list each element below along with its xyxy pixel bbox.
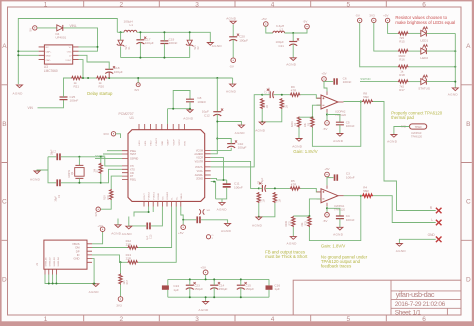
resistor R4 (362, 194, 373, 197)
junction R1 top (100, 156, 102, 158)
svg-text:C12: C12 (204, 113, 210, 117)
wire XTO up from rail (101, 169, 122, 183)
wire VCCR to C11 node (211, 158, 224, 180)
svg-text:100nF: 100nF (197, 100, 206, 104)
svg-text:150µF: 150µF (219, 287, 228, 291)
svg-text:100nF: 100nF (343, 80, 352, 84)
junction shield rail (48, 283, 50, 285)
resistor R9 (290, 93, 301, 96)
svg-text:ZGND: ZGND (196, 178, 203, 181)
supply 3V3 LED rail (372, 18, 376, 22)
capacitor C7 (269, 91, 271, 98)
svg-text:AGND: AGND (183, 116, 194, 120)
capacitor C10 (227, 143, 235, 145)
svg-text:U2OPA1: U2OPA1 (334, 204, 345, 208)
wire C17 verticals (139, 32, 141, 40)
wire shunt A bottoms (262, 109, 282, 122)
LED LED2 (421, 48, 427, 54)
wire DM to R12 (92, 247, 127, 249)
junction feedback B (360, 195, 362, 197)
svg-text:VCCP: VCCP (173, 139, 175, 146)
svg-text:1: 1 (44, 316, 48, 323)
junction GND rail (93, 283, 95, 285)
wire shunt B bottoms (259, 203, 275, 217)
svg-text:1: 1 (44, 1, 48, 8)
resistor R17 pullup (119, 274, 122, 285)
U3 left pin stubs (39, 47, 45, 60)
svg-text:AGND: AGND (292, 144, 303, 148)
junction rail pin2 (17, 50, 19, 52)
op-amp U2A output stub (338, 101, 344, 103)
wire C1 to crystal top (61, 156, 105, 158)
svg-text:2.2µF: 2.2µF (268, 87, 271, 94)
svg-text:AGND: AGND (333, 233, 344, 237)
wire cap bank top rail (168, 278, 269, 280)
svg-text:22R: 22R (107, 195, 110, 200)
svg-text:FUNC3: FUNC3 (156, 137, 158, 145)
resistor R22 gain B (292, 216, 295, 227)
wire -5V to C5 (327, 115, 340, 123)
wire STATUS to rail (426, 81, 455, 83)
wire XTI down from rail (105, 157, 122, 166)
supply -5V opamp B (325, 213, 330, 218)
wire C22 to AGND (201, 220, 228, 223)
crystal Q1 (75, 165, 83, 178)
svg-text:GND: GND (428, 233, 436, 237)
wire thermal pad to AGND (394, 127, 410, 135)
U1 left lower pin stubs (122, 166, 128, 180)
svg-text:3V3: 3V3 (116, 304, 122, 308)
svg-text:+5V: +5V (200, 265, 207, 269)
supply +5V opamp B (325, 172, 330, 177)
svg-text:AGND: AGND (387, 140, 398, 144)
op-amp U2B power stubs (326, 185, 328, 206)
svg-text:R17: R17 (126, 279, 129, 284)
resistor R18 (398, 65, 409, 68)
wire 3V3 to R16 (374, 23, 398, 51)
J1 right pin stubs (87, 244, 92, 262)
wire DP to R13 (92, 255, 127, 262)
resistor R3 feedback A (311, 117, 314, 128)
wire LED cathode rail down (454, 33, 456, 87)
svg-text:VCCL: VCCL (197, 170, 204, 173)
wire U3 pin6 to rail (79, 60, 84, 78)
wire C15 stubs (240, 279, 242, 285)
svg-text:C13: C13 (149, 234, 152, 239)
wire shield pin down (55, 275, 57, 284)
svg-text:TEST: TEST (130, 153, 137, 156)
ground AGND delay rail end (230, 84, 236, 87)
svg-text:A: A (466, 43, 471, 50)
wire C13 right to U1 (151, 207, 162, 226)
wire TEST from U1 (103, 153, 122, 155)
svg-text:LED1: LED1 (420, 38, 428, 42)
title block box (293, 280, 461, 315)
junction shield rail (52, 283, 54, 285)
frame row ticks left (2, 85, 8, 241)
svg-text:2: 2 (119, 316, 123, 323)
junction C23 top (189, 278, 191, 280)
svg-text:A: A (2, 43, 7, 50)
svg-text:Sheet: 1/1: Sheet: 1/1 (395, 309, 421, 316)
svg-text:NC: NC (46, 47, 50, 49)
svg-text:2016-7-29 21:02:06: 2016-7-29 21:02:06 (395, 301, 446, 308)
svg-text:5: 5 (346, 316, 350, 323)
svg-text:+5V: +5V (324, 167, 329, 171)
wire C8 net horizontal (168, 108, 191, 110)
svg-text:AGND: AGND (286, 63, 297, 67)
svg-text:DP: DP (76, 249, 80, 253)
wire VIN net (38, 100, 64, 108)
svg-text:C: C (466, 199, 471, 206)
wire C7 left stub (262, 94, 270, 96)
op-amp U2B triangle (321, 189, 338, 203)
svg-text:Delay startup: Delay startup (87, 91, 113, 96)
svg-text:TPAD: TPAD (415, 125, 422, 129)
resistor R5 (290, 187, 301, 190)
junction C15 bottom (240, 296, 242, 298)
wire AGND to C20 (232, 25, 234, 37)
wire VINL net D4 to U3 pin8 (63, 28, 97, 51)
wire R1 top stub (100, 157, 102, 163)
wire crystal AGND tap (37, 169, 48, 172)
svg-text:AGND: AGND (333, 139, 344, 143)
resistor R17 status (398, 80, 409, 83)
junction VBUS node (182, 219, 184, 221)
svg-text:AGNDR: AGNDR (194, 153, 203, 156)
thermal pad U2 stadium (410, 124, 427, 129)
svg-text:LMC7660: LMC7660 (44, 69, 58, 73)
junction C15 top (240, 278, 242, 280)
supply +5V left of L2 (264, 22, 269, 27)
junction D2 top (189, 31, 191, 33)
wire feedback A (312, 102, 360, 147)
svg-text:FUNC2: FUNC2 (149, 191, 151, 199)
resistor R19 (110, 189, 113, 200)
svg-text:yifan-usb-dac: yifan-usb-dac (396, 290, 435, 299)
svg-text:6: 6 (422, 1, 426, 8)
svg-text:GND: GND (46, 56, 51, 58)
wire FUNC1 stub (152, 207, 154, 213)
wire C12 rail upper (216, 78, 218, 112)
svg-text:100nF: 100nF (346, 175, 355, 179)
svg-text:5V: 5V (29, 28, 33, 32)
svg-text:R16: R16 (399, 57, 405, 61)
wire L1 left (117, 31, 124, 33)
junction C11 top rail (223, 179, 225, 181)
LED LED1 (421, 30, 427, 36)
wire +5V stub below VBUS (182, 220, 184, 225)
wire C18 up (108, 72, 110, 78)
wire input rail top-left loop (18, 19, 117, 85)
wire delay rail right (107, 77, 233, 79)
svg-text:AGND: AGND (448, 93, 459, 97)
junction R17 tap (120, 261, 122, 263)
svg-text:U2OPA3: U2OPA3 (411, 131, 422, 135)
capacitor C24 (162, 285, 169, 289)
svg-text:VCCX: VCCX (179, 139, 181, 146)
svg-text:100nF: 100nF (169, 41, 178, 45)
supply 3V3 tap on delay rail (136, 83, 140, 87)
supply 3V3 left of U1 (111, 132, 115, 136)
wire rail tap to U3 pin2 (18, 50, 38, 52)
op-amp U2B input stubs (317, 192, 322, 199)
wire left rail crystal (48, 157, 56, 183)
wire U1 VCOM to C10 (211, 148, 232, 151)
svg-text:4: 4 (271, 1, 275, 8)
capacitor C4 (336, 216, 344, 219)
svg-text:Gain: 1.8V/V: Gain: 1.8V/V (293, 149, 317, 154)
svg-text:3: 3 (195, 316, 199, 323)
svg-text:AGND: AGND (235, 131, 246, 135)
svg-text:GND: GND (74, 257, 80, 261)
svg-text:-5V: -5V (303, 20, 308, 24)
wire LED2 to cathode rail (426, 50, 455, 52)
U1 right pin stubs (205, 150, 211, 178)
svg-text:R22: R22 (288, 220, 291, 225)
svg-text:DOUT: DOUT (144, 193, 146, 200)
junction C10 mid tap (216, 138, 218, 140)
IC U1 PCM2707 body (128, 130, 205, 202)
junction C23 bottom (189, 296, 191, 298)
svg-text:5: 5 (346, 1, 350, 8)
ground AGND output jack (396, 244, 402, 247)
svg-text:1M: 1M (266, 105, 269, 108)
wire C11 bottom rail (216, 188, 227, 199)
inductor L2 (273, 31, 285, 33)
zener diode D2 (187, 40, 192, 45)
svg-text:VOUT: VOUT (65, 60, 72, 62)
wire R18 to rail (409, 66, 456, 68)
svg-text:SSPND: SSPND (360, 77, 371, 81)
wire VBUS to +5V (92, 232, 103, 244)
wire R19 bottom to 3V3 (100, 200, 111, 209)
capacitor C18 (105, 68, 113, 70)
junction C17 top (139, 31, 141, 33)
svg-text:L2: L2 (280, 28, 284, 32)
svg-text:100nF: 100nF (234, 185, 243, 189)
svg-text:FUNC1: FUNC1 (153, 191, 155, 199)
J1 shield pin stubs (45, 269, 56, 274)
wire C4 to AGND (339, 219, 341, 227)
capacitor C14 (210, 284, 218, 286)
wire D1 vertical (120, 32, 122, 40)
ground AGND right of C22 (225, 223, 231, 226)
svg-text:+5V: +5V (261, 17, 266, 21)
wire VOUTR to filter B (211, 161, 259, 188)
junction FUNC nest (148, 211, 150, 213)
resistor R11 shunt (280, 98, 283, 109)
wire U1 VBUS down (181, 207, 183, 220)
wire C9 left stub (259, 187, 263, 189)
svg-text:AGND: AGND (111, 231, 122, 235)
svg-text:TPA6120: TPA6120 (335, 113, 347, 117)
ground AGND below C11 (219, 203, 225, 206)
wire LED1 to cathode rail (426, 32, 455, 34)
capacitor C17 (136, 39, 144, 41)
svg-text:DGND: DGND (158, 193, 160, 200)
wire R1 bottom to XTO (100, 174, 102, 183)
wire FUNC pins nest (134, 207, 149, 217)
junction shunt B (258, 216, 260, 218)
svg-text:C: C (2, 199, 7, 206)
junction LED2 rail (454, 50, 456, 52)
junction C17 bottom (139, 57, 141, 59)
capacitor C12 (213, 111, 221, 113)
svg-text:AGND: AGND (252, 224, 263, 228)
svg-text:6: 6 (422, 316, 426, 323)
junction VINL (97, 46, 99, 48)
svg-text:+5V: +5V (97, 224, 104, 228)
wire AGNDL net (211, 182, 216, 199)
wire C13 net (129, 217, 146, 226)
wire C9 right to R5 (266, 187, 290, 189)
op-amp U2A plus minus (322, 97, 324, 105)
ground AGND R22 (290, 237, 296, 240)
wire -5V to R18 (360, 23, 398, 67)
svg-text:150µF: 150µF (245, 287, 254, 291)
junction feedback A (360, 101, 362, 103)
capacitor C13 (146, 223, 148, 230)
ground AGND near USB (115, 225, 121, 228)
wire VOUTL to filter A (211, 95, 263, 167)
wire crystal bottom stub (78, 178, 80, 182)
svg-text:TPA6120: TPA6120 (411, 135, 423, 139)
wire R17 to STATUS LED (409, 81, 421, 83)
junction C18 tap (108, 77, 110, 79)
resistor R23 feedback B (308, 216, 311, 227)
capacitor C20 (229, 36, 237, 38)
wire R15 to LED1 (409, 32, 421, 34)
svg-text:AGND: AGND (255, 129, 266, 133)
wire +5V to rail (205, 275, 207, 280)
resistor R6 shunt (257, 192, 260, 203)
wire +5V to R15 (388, 23, 398, 34)
op-amp U2A input stubs (317, 98, 322, 105)
svg-text:AGND: AGND (226, 90, 237, 94)
junction crystal bottom (78, 182, 80, 184)
junction shunt A (261, 121, 263, 123)
svg-text:100nF: 100nF (70, 98, 79, 102)
frame column ticks bottom (84, 315, 387, 321)
frame row ticks right (461, 85, 472, 241)
ground AGND cap bank (205, 297, 207, 301)
wire U3 pin5 to C18 (79, 55, 110, 69)
svg-text:C21: C21 (279, 44, 285, 48)
wire C21 stub (292, 33, 294, 42)
supply +5V LED rail (385, 18, 389, 22)
junction filter B left (258, 187, 260, 189)
wire 3V3 stub (137, 78, 139, 83)
svg-text:AGND: AGND (396, 249, 407, 253)
svg-text:VDD: VDD (162, 140, 164, 145)
junction pin6 rail (82, 77, 84, 79)
wire C12 rail lower (211, 114, 218, 154)
capacitor C11 (223, 183, 231, 185)
svg-text:SHIELD3: SHIELD3 (54, 257, 56, 267)
inductor L1 (124, 30, 137, 32)
capacitor C22 (196, 216, 198, 223)
U1 bottom pin stubs (144, 201, 181, 206)
ground AGND below C21 (290, 58, 296, 61)
op-amp U2A power stubs (326, 92, 328, 113)
wire L2 left (266, 26, 273, 33)
svg-text:SHIELD4: SHIELD4 (58, 257, 60, 267)
pad X right channel (436, 208, 442, 214)
capacitor C9 (261, 185, 263, 192)
svg-text:U2OPA2: U2OPA2 (335, 110, 346, 114)
ground AGND below left rail (17, 85, 23, 88)
wire ZGND jog (211, 178, 217, 180)
wire +5V to opamp B (326, 177, 328, 185)
svg-text:Gain: 1.8V/V: Gain: 1.8V/V (321, 243, 345, 248)
svg-text:SHIELD1: SHIELD1 (46, 257, 48, 267)
wire shield pin down (52, 275, 54, 284)
svg-text:CAP+: CAP+ (46, 50, 52, 53)
svg-text:-5V: -5V (355, 14, 360, 18)
supply +5V above USB (100, 227, 105, 232)
wire opamp A out (344, 101, 363, 103)
svg-text:AGND: AGND (122, 232, 133, 236)
capacitor C8 (186, 99, 194, 102)
junction C8 loop (172, 108, 174, 110)
wire R4 to L jack (373, 196, 436, 223)
supply +5V below U1 (181, 225, 186, 230)
wire C19 verticals (163, 32, 165, 41)
svg-text:AGND: AGND (13, 92, 24, 96)
wire +5V to opamp A (324, 81, 327, 91)
wire C11 top rail (217, 179, 227, 181)
svg-text:AGND: AGND (226, 17, 237, 21)
svg-text:100nF: 100nF (346, 218, 355, 222)
wire crystal top stub (78, 157, 80, 166)
capacitor C16 (266, 285, 273, 289)
svg-text:1M: 1M (262, 199, 265, 202)
wire R21 to R20 (82, 77, 96, 79)
svg-text:VINL: VINL (70, 24, 77, 28)
op-amp U2A triangle (321, 95, 338, 109)
svg-text:D-: D- (172, 197, 174, 200)
supply circle -5V A (325, 121, 330, 126)
svg-text:AGND: AGND (89, 290, 100, 294)
svg-text:3V3: 3V3 (94, 211, 98, 216)
capacitor C21 (289, 41, 297, 43)
junction filter A right (281, 94, 283, 96)
ground AGND crystal (34, 171, 40, 174)
capacitor C2 (56, 179, 58, 186)
svg-text:100µF: 100µF (145, 41, 154, 45)
resistor R1 (99, 163, 102, 174)
svg-text:100nF: 100nF (346, 124, 355, 128)
wire GND jack to AGND (399, 239, 435, 243)
LED STATUS (421, 79, 427, 85)
supply 3V3 below R17 (118, 297, 123, 302)
svg-text:thermal pad: thermal pad (391, 115, 414, 120)
wire opamp A -in network (312, 105, 321, 117)
wire R2 to AGND (298, 128, 300, 139)
zener diode D1 (118, 40, 123, 45)
svg-text:47R: 47R (291, 89, 297, 93)
svg-text:3V3: 3V3 (103, 132, 109, 136)
supply 3V3 below R19 (96, 207, 100, 211)
wire C8 bottom (189, 102, 191, 110)
U1 left upper pin stubs (122, 151, 128, 159)
svg-text:AGND: AGND (287, 242, 298, 246)
junction C14 bottom (213, 296, 215, 298)
wire R17 pullup top (120, 262, 122, 273)
capacitor C23 (186, 284, 194, 286)
resistor R8 (362, 100, 373, 103)
